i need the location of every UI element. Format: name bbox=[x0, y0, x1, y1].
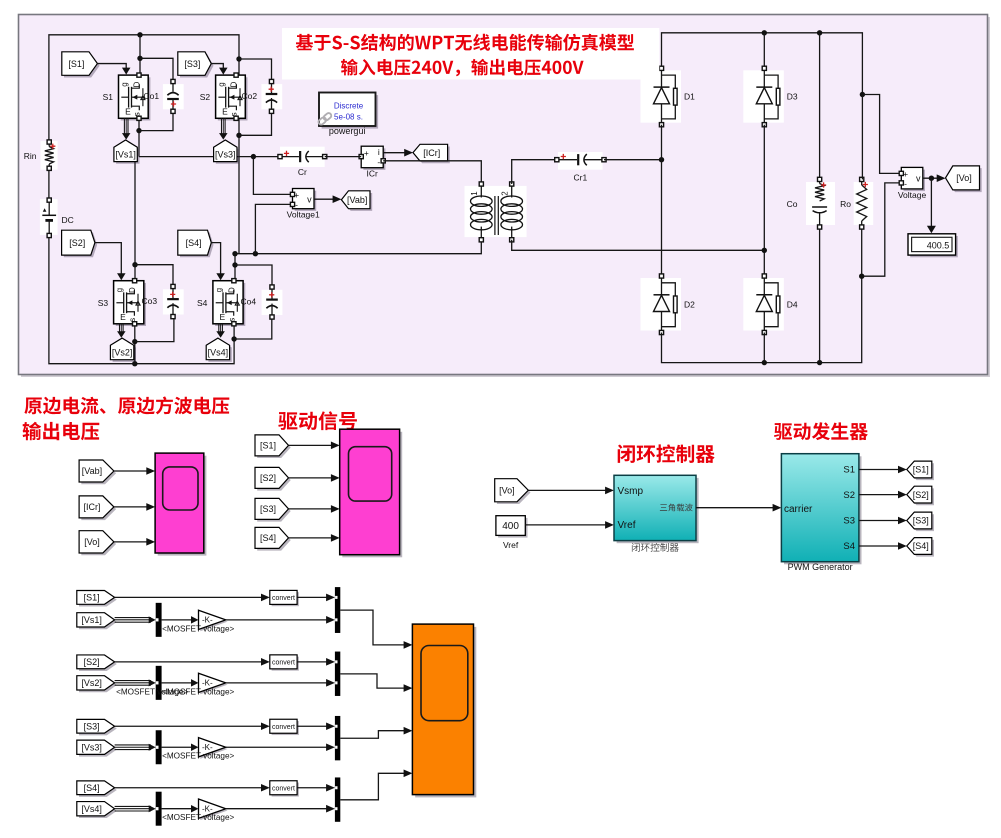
wire Co1 top branch bbox=[140, 58, 173, 81]
svg-text:convert: convert bbox=[272, 595, 295, 602]
junction S4 drain bbox=[232, 251, 237, 256]
svg-text:g: g bbox=[120, 82, 129, 86]
wire Co4 return bbox=[234, 317, 272, 339]
battery DC bbox=[40, 199, 58, 235]
title background bbox=[282, 28, 659, 80]
svg-text:Co: Co bbox=[787, 199, 798, 209]
svg-text:E: E bbox=[222, 106, 228, 116]
svg-text:<MOSFET voltage>: <MOSFET voltage> bbox=[162, 624, 234, 633]
bus Vs2 to selector bbox=[115, 680, 151, 682]
svg-text:[S3]: [S3] bbox=[913, 516, 929, 526]
goto tag [S3] out bbox=[909, 514, 934, 531]
subsystem PWM Generator bbox=[784, 456, 862, 564]
wire Co2 top branch bbox=[239, 59, 272, 82]
mosfet S4 bbox=[215, 283, 245, 326]
bus selector 1 bbox=[156, 603, 162, 637]
svg-text:Discrete: Discrete bbox=[334, 101, 364, 110]
from tag [Vs2] g bbox=[79, 678, 117, 692]
gain MOSFET voltage 3 bbox=[200, 739, 227, 758]
wire S2 E signal bbox=[221, 118, 223, 135]
junction D3 top bbox=[762, 30, 767, 35]
wire selector to gain 1 bbox=[162, 619, 194, 621]
wire Vo to scope bbox=[114, 541, 150, 543]
svg-text:DC: DC bbox=[62, 215, 74, 225]
wire S1 to scope bbox=[289, 444, 335, 446]
wire S2 gate bbox=[211, 64, 223, 70]
wire Vab signal bbox=[314, 198, 335, 200]
mosfet S1 bbox=[121, 77, 151, 120]
mux 2 bbox=[335, 652, 340, 696]
title line 2 bbox=[341, 59, 584, 77]
svg-text:[Vs2]: [Vs2] bbox=[112, 348, 133, 358]
wire Co3 top branch bbox=[135, 265, 173, 287]
from tag [Vab] b bbox=[81, 462, 116, 484]
svg-text:g: g bbox=[115, 288, 124, 292]
wire Co1 return bbox=[139, 111, 173, 130]
wire S2 source to node B bbox=[238, 118, 240, 253]
mosfet S3 bbox=[116, 283, 146, 326]
from tag [S3] scope bbox=[257, 501, 291, 522]
svg-text:[Vab]: [Vab] bbox=[82, 466, 102, 476]
svg-text:Vref: Vref bbox=[503, 540, 519, 550]
from tag [Vs1] g bbox=[79, 615, 117, 629]
diode D1 bbox=[641, 70, 682, 122]
wire to display bbox=[930, 178, 932, 226]
wire S3 E signal bbox=[119, 324, 121, 333]
svg-text:Vsmp: Vsmp bbox=[618, 486, 644, 497]
from tag [S1] scope bbox=[257, 437, 291, 458]
heading primary signals line2 bbox=[23, 422, 100, 441]
capacitor Co4 bbox=[262, 290, 283, 315]
convert block 1 bbox=[272, 592, 299, 606]
resistor Rin bbox=[41, 141, 58, 170]
svg-text:Voltage1: Voltage1 bbox=[287, 210, 320, 220]
svg-text:[Vs4]: [Vs4] bbox=[81, 804, 102, 814]
capacitor Co2 bbox=[261, 84, 282, 109]
svg-text:Co3: Co3 bbox=[142, 296, 158, 306]
gain MOSFET voltage 4 bbox=[200, 801, 227, 820]
svg-text:S3: S3 bbox=[98, 298, 109, 308]
svg-text:[S3]: [S3] bbox=[84, 721, 100, 731]
diode D3 bbox=[743, 70, 784, 122]
svg-text:-: - bbox=[377, 157, 380, 167]
wire Co4 top branch bbox=[235, 265, 272, 287]
goto tag [Vs3] bbox=[216, 142, 239, 164]
wire convert to mux 2 bbox=[297, 661, 329, 663]
svg-text:Vref: Vref bbox=[618, 520, 636, 531]
wire S1 to convert bbox=[115, 596, 264, 598]
goto tag [Vo] bbox=[948, 168, 982, 192]
wire controller to PWM bbox=[696, 507, 775, 509]
wire ICr signal bbox=[383, 152, 407, 154]
svg-text:S4: S4 bbox=[197, 298, 208, 308]
svg-text:[Vs1]: [Vs1] bbox=[115, 149, 136, 159]
svg-text:Co1: Co1 bbox=[144, 91, 160, 101]
from tag [S4] scope bbox=[257, 530, 291, 551]
title line 1 bbox=[296, 34, 634, 51]
from tag [S3] bbox=[180, 54, 214, 78]
junction Ro sense bottom bbox=[859, 274, 864, 279]
from tag [ICr] b bbox=[81, 498, 116, 520]
svg-text:[S1]: [S1] bbox=[84, 593, 100, 603]
wire S3 to scope bbox=[289, 508, 335, 510]
svg-text:Cr: Cr bbox=[298, 167, 307, 177]
svg-text:PWM Generator: PWM Generator bbox=[788, 562, 853, 572]
junction node B bbox=[253, 251, 258, 256]
svg-text:400.5: 400.5 bbox=[927, 240, 950, 250]
wire Voltage1 minus tap bbox=[255, 204, 292, 253]
svg-text:powergui: powergui bbox=[329, 126, 366, 136]
wire Co top leg bbox=[819, 33, 821, 180]
diode D4 bbox=[743, 278, 784, 331]
voltage sensor Voltage1 bbox=[295, 191, 317, 211]
wire convert to mux 1 bbox=[297, 596, 329, 598]
junction Co1 return bbox=[136, 128, 141, 133]
svg-text:E: E bbox=[120, 312, 126, 322]
wire rectifier bottom rail bbox=[662, 227, 862, 363]
junction S1 drain branch bbox=[137, 32, 142, 37]
wire DC+ top rail bbox=[48, 168, 50, 235]
svg-text:[Vo]: [Vo] bbox=[499, 485, 515, 495]
svg-text:S1: S1 bbox=[843, 465, 855, 476]
svg-text:[S4]: [S4] bbox=[186, 238, 202, 248]
svg-text:[S2]: [S2] bbox=[913, 490, 929, 500]
svg-text:S3: S3 bbox=[843, 515, 855, 526]
from tag [S1] bbox=[64, 54, 100, 78]
wire S1 drain leg bbox=[139, 35, 141, 75]
svg-text:E: E bbox=[125, 106, 131, 116]
wire S3 source to rail bbox=[134, 324, 136, 364]
wire mux to scope 1 bbox=[340, 610, 406, 645]
wire D1 to D2 bbox=[661, 125, 663, 276]
wire convert to mux 4 bbox=[297, 787, 329, 789]
wire PWM S3 out bbox=[859, 520, 901, 522]
wire S1 source to node A bbox=[138, 118, 140, 156]
mosfet S2 bbox=[218, 77, 248, 120]
svg-text:+: + bbox=[364, 148, 369, 158]
wire ICr to transformer bbox=[383, 161, 481, 184]
junction Co4 branch bbox=[232, 262, 237, 267]
svg-text:[Vab]: [Vab] bbox=[347, 195, 367, 205]
svg-text:D: D bbox=[128, 287, 137, 293]
svg-text:Rin: Rin bbox=[24, 151, 37, 161]
svg-text:1: 1 bbox=[470, 191, 479, 196]
bus selector 2 bbox=[156, 666, 162, 700]
wire Cr1 to bridge bbox=[604, 159, 662, 161]
wire S2 to convert bbox=[115, 661, 264, 663]
svg-text:[S3]: [S3] bbox=[184, 59, 200, 69]
junction Co3 return bbox=[132, 339, 137, 344]
svg-text:g: g bbox=[215, 288, 224, 292]
svg-text:ICr: ICr bbox=[367, 169, 379, 179]
svg-text:-: - bbox=[295, 200, 298, 210]
subsystem panel bbox=[21, 17, 990, 377]
wire S2 to scope bbox=[289, 477, 335, 479]
voltage sensor Voltage bbox=[904, 170, 926, 192]
svg-text:Ro: Ro bbox=[840, 199, 851, 209]
junction Co bottom bbox=[817, 360, 822, 365]
junction node A bbox=[251, 154, 256, 159]
from tag [S2] g bbox=[79, 657, 117, 671]
wire Voltage plus tap bbox=[862, 95, 901, 174]
wire selector to gain 2 bbox=[162, 682, 194, 684]
convert block 2 bbox=[272, 657, 299, 671]
from tag [S4] bbox=[180, 232, 214, 257]
heading drive signals bbox=[278, 411, 357, 430]
wire ICr to scope bbox=[114, 506, 150, 508]
svg-text:D1: D1 bbox=[684, 92, 695, 102]
wire Co bottom leg bbox=[819, 227, 821, 363]
wire bottom rail bbox=[49, 236, 234, 364]
goto tag [Vab] bbox=[344, 193, 373, 211]
svg-text:[Vs3]: [Vs3] bbox=[215, 149, 236, 159]
wire S4 gate bbox=[211, 243, 220, 276]
wire S4 to convert bbox=[115, 787, 264, 789]
from tag [S4] g bbox=[79, 783, 117, 797]
mux 4 bbox=[335, 777, 340, 821]
svg-text:[Vs3]: [Vs3] bbox=[81, 742, 102, 752]
wire Co2 return bbox=[239, 111, 272, 135]
svg-text:<MOSFET voltage>: <MOSFET voltage> bbox=[116, 687, 188, 696]
goto tag [Vs2] bbox=[113, 340, 136, 362]
svg-text:Cr1: Cr1 bbox=[574, 173, 588, 183]
wire Vo signal bbox=[923, 177, 940, 179]
svg-text:g: g bbox=[217, 82, 226, 86]
svg-text:S2: S2 bbox=[843, 490, 855, 501]
junction Ro sense top bbox=[860, 92, 865, 97]
svg-text:[S4]: [S4] bbox=[84, 783, 100, 793]
junction D4 bottom bbox=[762, 360, 767, 365]
goto tag [S1] out bbox=[909, 463, 934, 480]
svg-text:[Vo]: [Vo] bbox=[956, 173, 972, 183]
wire D3 to D4 bbox=[763, 125, 765, 276]
wire S4 E signal bbox=[218, 324, 220, 333]
goto tag [ICr] bbox=[415, 147, 450, 164]
gain MOSFET voltage 2 bbox=[200, 675, 227, 694]
wire Voltage1 plus tap bbox=[253, 157, 292, 195]
junction D3 mid bbox=[762, 248, 767, 253]
junction Co2 return bbox=[236, 133, 241, 138]
svg-text:[Vo]: [Vo] bbox=[84, 537, 100, 547]
constant Vref 400 bbox=[498, 518, 527, 538]
from tag [Vo] ctrl bbox=[497, 481, 531, 504]
junction Co2 branch bbox=[236, 56, 241, 61]
svg-text:[ICr]: [ICr] bbox=[423, 148, 440, 158]
svg-text:S2: S2 bbox=[200, 92, 211, 102]
convert block 3 bbox=[272, 721, 299, 735]
capacitor Cr1 bbox=[558, 152, 603, 170]
label closed-loop controller bbox=[632, 543, 679, 552]
heading drive generator bbox=[774, 422, 868, 440]
svg-text:D: D bbox=[230, 81, 239, 87]
wire selector to gain 3 bbox=[162, 746, 194, 748]
wire PWM S2 out bbox=[859, 494, 901, 496]
wire Vab to scope bbox=[114, 470, 150, 472]
svg-text:E: E bbox=[219, 312, 225, 322]
wire D4 bottom leg bbox=[763, 333, 765, 363]
wire rectifier top rail bbox=[662, 33, 863, 95]
bus selector 3 bbox=[156, 730, 162, 764]
from tag [S1] g bbox=[79, 593, 117, 607]
wire top rail left bbox=[49, 35, 239, 142]
svg-text:D3: D3 bbox=[787, 92, 798, 102]
wire Ro top leg bbox=[861, 95, 863, 180]
wire selector to gain 4 bbox=[162, 808, 194, 810]
wire S3 gate bbox=[95, 243, 121, 276]
svg-text:[Vs4]: [Vs4] bbox=[208, 348, 229, 358]
svg-text:<MOSFET voltage>: <MOSFET voltage> bbox=[162, 752, 234, 761]
wire S3 to convert bbox=[115, 725, 264, 727]
svg-text:[S2]: [S2] bbox=[260, 473, 276, 483]
resistor Ro bbox=[854, 182, 874, 225]
wire gain to mux 1 bbox=[226, 619, 329, 621]
svg-text:carrier: carrier bbox=[784, 504, 813, 515]
svg-text:400: 400 bbox=[502, 521, 519, 532]
junction Vo bbox=[929, 176, 934, 181]
wire secondary top to Cr1 bbox=[512, 160, 557, 184]
from tag [S2] bbox=[64, 232, 97, 257]
from tag [Vs4] g bbox=[79, 804, 117, 818]
svg-text:v: v bbox=[307, 194, 312, 204]
from tag [Vo] b bbox=[81, 533, 116, 555]
svg-text:D4: D4 bbox=[787, 299, 798, 309]
wire D3 top leg bbox=[763, 33, 765, 69]
wire S1 gate bbox=[97, 64, 126, 70]
bus selector 4 bbox=[156, 792, 162, 826]
convert block 4 bbox=[272, 783, 299, 797]
svg-text:[S4]: [S4] bbox=[260, 533, 276, 543]
svg-text:convert: convert bbox=[272, 785, 295, 792]
wire Vo to controller bbox=[528, 489, 607, 491]
powergui block bbox=[322, 95, 379, 129]
wire secondary bottom return bbox=[512, 240, 764, 251]
svg-text:S1: S1 bbox=[103, 92, 114, 102]
svg-text:[S3]: [S3] bbox=[260, 504, 276, 514]
wire mux to scope 2 bbox=[340, 674, 406, 688]
svg-text:[S1]: [S1] bbox=[260, 441, 276, 451]
capacitor Cr bbox=[280, 147, 325, 167]
junction Co3 branch bbox=[132, 262, 137, 267]
svg-text:2: 2 bbox=[501, 191, 510, 196]
from tag [Vs3] g bbox=[79, 742, 117, 756]
transformer T1 bbox=[465, 186, 527, 237]
scope MOSFET voltages bbox=[415, 627, 476, 798]
wire left leg to S3 bbox=[134, 157, 136, 281]
current sensor ICr bbox=[363, 148, 385, 170]
wire Cr to ICr bbox=[325, 156, 362, 158]
from tag [S2] scope bbox=[257, 470, 291, 491]
wire mux to scope 4 bbox=[340, 773, 406, 800]
svg-text:convert: convert bbox=[272, 724, 295, 731]
bus Vs3 to selector bbox=[115, 744, 151, 746]
svg-text:i: i bbox=[378, 147, 380, 157]
svg-text:[Vs2]: [Vs2] bbox=[81, 678, 102, 688]
wire Co3 return bbox=[135, 317, 174, 342]
scope drive signals bbox=[342, 432, 402, 558]
svg-text:Voltage: Voltage bbox=[898, 190, 927, 200]
svg-text:D: D bbox=[228, 287, 237, 293]
wire PWM S1 out bbox=[859, 469, 901, 471]
wire node B rail bbox=[235, 240, 481, 254]
subsystem closed-loop controller bbox=[617, 478, 699, 543]
junction Co1 branch bbox=[137, 56, 142, 61]
svg-text:[S2]: [S2] bbox=[69, 238, 85, 248]
junction Co top bbox=[817, 30, 822, 35]
wire gain to mux 3 bbox=[226, 746, 329, 748]
svg-text:convert: convert bbox=[272, 660, 295, 667]
wire PWM S4 out bbox=[859, 545, 901, 547]
goto tag [Vs4] bbox=[208, 340, 231, 362]
scope primary signals bbox=[158, 456, 207, 556]
mux 1 bbox=[335, 587, 340, 633]
wire S4 to scope bbox=[289, 537, 335, 539]
svg-text:Co4: Co4 bbox=[241, 297, 257, 307]
goto tag [S4] out bbox=[909, 540, 934, 557]
mux 3 bbox=[335, 716, 340, 760]
junction S3 rail bbox=[132, 361, 137, 366]
wire S1 E signal bbox=[123, 118, 125, 135]
junction bridge left mid bbox=[659, 157, 664, 162]
svg-text:D: D bbox=[133, 81, 142, 87]
svg-text:Co2: Co2 bbox=[242, 91, 258, 101]
heading primary signals line1 bbox=[24, 396, 229, 414]
from tag [S3] g bbox=[79, 722, 117, 736]
capacitor Co bbox=[806, 182, 835, 225]
diode D2 bbox=[641, 278, 682, 331]
wire right leg to S4 bbox=[234, 254, 236, 281]
svg-text:D2: D2 bbox=[684, 299, 695, 309]
svg-text:[S4]: [S4] bbox=[913, 541, 929, 551]
wire gain to mux 2 bbox=[226, 682, 329, 684]
svg-text:v: v bbox=[916, 174, 921, 184]
wire Vref to controller bbox=[525, 524, 607, 526]
svg-text:[ICr]: [ICr] bbox=[83, 502, 100, 512]
wire Voltage minus tap bbox=[862, 183, 902, 276]
goto tag [S2] out bbox=[909, 488, 934, 505]
svg-text:<MOSFET voltage>: <MOSFET voltage> bbox=[162, 813, 234, 822]
svg-text:5e-08 s.: 5e-08 s. bbox=[334, 112, 363, 121]
capacitor Co1 bbox=[163, 84, 184, 109]
bus Vs4 to selector bbox=[115, 805, 151, 807]
svg-text:[S1]: [S1] bbox=[913, 465, 929, 475]
bus Vs1 to selector bbox=[115, 617, 151, 619]
svg-text:[S1]: [S1] bbox=[68, 59, 84, 69]
capacitor Co3 bbox=[163, 289, 184, 314]
wire mux to scope 3 bbox=[340, 731, 406, 739]
svg-text:[S2]: [S2] bbox=[84, 657, 100, 667]
gain MOSFET voltage 1 bbox=[200, 612, 227, 631]
wire gain to mux 4 bbox=[226, 808, 329, 810]
wire node A rail bbox=[139, 156, 280, 158]
svg-text:[Vs1]: [Vs1] bbox=[81, 615, 102, 625]
junction Co4 return bbox=[231, 336, 236, 341]
svg-text:-: - bbox=[904, 179, 907, 189]
svg-text:S4: S4 bbox=[843, 541, 855, 552]
wire convert to mux 3 bbox=[297, 725, 329, 727]
heading closed-loop controller bbox=[618, 444, 715, 463]
display block bbox=[910, 236, 958, 257]
goto tag [Vs1] bbox=[116, 142, 139, 164]
